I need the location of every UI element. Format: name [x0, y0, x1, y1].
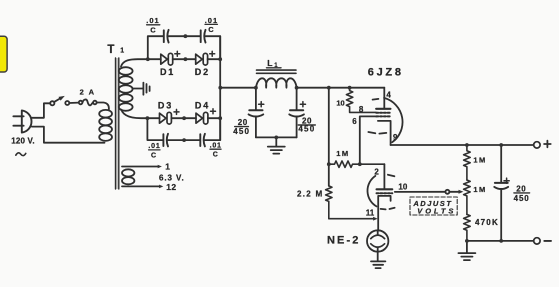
junction divider bottom [465, 239, 469, 243]
triode envelope [367, 176, 376, 207]
top cap line [148, 36, 220, 59]
bottom cap line [147, 118, 220, 140]
transformer T1 HV secondary winding [119, 67, 133, 75]
ground at filter caps [275, 137, 277, 146]
svg-text:C: C [150, 25, 156, 34]
triode cathode (pin 11) [378, 196, 390, 231]
AC plug P1 [22, 110, 32, 132]
svg-text:C: C [213, 152, 218, 159]
svg-text:D2: D2 [195, 67, 210, 77]
chassis ground at center tap [142, 83, 144, 95]
svg-text:VOLTS: VOLTS [417, 206, 456, 215]
L1 core bars [257, 70, 297, 73]
svg-text:8: 8 [359, 105, 364, 114]
junction D1 anode / secondary top [146, 57, 150, 61]
svg-text:C: C [151, 153, 156, 160]
svg-text:D3: D3 [158, 100, 173, 110]
wiper circle [445, 190, 449, 194]
svg-text:L: L [267, 58, 272, 68]
svg-text:1M: 1M [336, 149, 349, 158]
plus mark D1 [175, 51, 180, 56]
wire switch to fuse [69, 102, 79, 104]
choke L1 [256, 78, 297, 87]
junction B+ rail / 1M-2.2M rail [327, 86, 331, 90]
capacitor C1 .01 [163, 30, 165, 42]
pentode plate (pin 4) [383, 88, 385, 108]
svg-text:.01: .01 [148, 143, 160, 150]
wire fuse to primary [97, 103, 109, 110]
wire filament top lead to pin 1 [122, 166, 158, 168]
junction D3 anode / secondary bottom [146, 116, 150, 120]
transformer T1 primary winding [99, 110, 112, 118]
pentode control grid (pin 6) [376, 115, 390, 117]
junction 1M left / 2.2M top [327, 162, 331, 166]
svg-text:2.2 M: 2.2 M [297, 189, 324, 198]
diode D3 [160, 113, 167, 123]
capacitor C7 20/450 output [500, 145, 502, 182]
svg-text:.01: .01 [210, 142, 222, 149]
neon lamp NE-2 [367, 230, 388, 251]
junction 1M right / pin 6 / pin 2 [358, 162, 362, 166]
output bottom wire (to -) [467, 240, 534, 242]
triode plate (pin 2) [383, 164, 385, 188]
output top wire (pin 9 to +) [391, 144, 534, 146]
plus mark D4 [211, 109, 216, 114]
svg-text:1M: 1M [473, 156, 486, 165]
resistor 1M (top right) [464, 145, 471, 180]
svg-text:1M: 1M [473, 185, 486, 194]
capacitor C2 .01 [200, 30, 202, 42]
wire center tap [132, 88, 142, 90]
svg-text:450: 450 [298, 125, 315, 134]
ground at NE-2 [377, 252, 379, 261]
rectifier output rail vertical [219, 36, 221, 140]
wire secondary bottom lead [121, 110, 147, 119]
terminal - [534, 238, 540, 244]
svg-text:450: 450 [233, 127, 250, 136]
svg-text:20: 20 [238, 118, 248, 127]
yellow tab [0, 36, 7, 72]
svg-text:2 A: 2 A [80, 87, 96, 96]
AC tilde [16, 153, 26, 156]
transformer T1 filament winding [122, 169, 134, 176]
svg-text:10: 10 [336, 98, 344, 107]
plus mark C7 [504, 178, 509, 183]
wire filament bottom lead to pin 12 [122, 185, 159, 187]
diode D2 [196, 54, 203, 64]
junction D2 cathode [218, 57, 222, 61]
junction D1-D2 [184, 57, 188, 61]
fuse 2A [79, 101, 83, 105]
junction C3-C4 [182, 138, 186, 142]
capacitor C3 .01 [162, 134, 164, 146]
junction C7 bottom [499, 239, 503, 243]
junction D4 cathode [218, 116, 222, 120]
diode D4 [196, 113, 203, 123]
junction rectifier output node [218, 86, 222, 90]
svg-text:1: 1 [120, 48, 124, 55]
plug prong lower [13, 125, 23, 127]
ground at divider [466, 241, 468, 253]
terminal + [534, 142, 540, 148]
pentode envelope [384, 98, 402, 142]
resistor 2.2M [326, 186, 374, 219]
pentode screen grid [376, 112, 391, 114]
diode D1 [161, 54, 168, 64]
svg-text:1: 1 [165, 161, 170, 171]
svg-text:D1: D1 [160, 67, 175, 77]
svg-text:12: 12 [166, 182, 176, 192]
ADJUST VOLTS box [410, 197, 457, 215]
svg-text:6JZ8: 6JZ8 [368, 66, 404, 78]
plus mark C6 [300, 102, 305, 107]
top rectifier: diode line [148, 58, 161, 60]
pentode cathode (pin 9) [378, 121, 391, 145]
junction L1 right / C6 [295, 86, 299, 90]
bottom rectifier: diode line [147, 117, 159, 119]
B+ rail to tube [297, 87, 385, 89]
junction output rail / C7 top [499, 143, 503, 147]
svg-text:C: C [208, 25, 214, 34]
plus mark D2 [210, 51, 215, 56]
svg-text:11: 11 [366, 209, 375, 218]
capacitor C4 .01 [199, 134, 201, 146]
wire cap bottoms [256, 136, 297, 138]
junction B+ rail / 10 ohm [348, 86, 352, 90]
svg-text:470K: 470K [475, 218, 499, 227]
left rail junction down [328, 88, 330, 186]
svg-text:6: 6 [352, 117, 357, 126]
wire plug bottom to transformer [32, 127, 105, 143]
junction L1 left / C5 [254, 86, 258, 90]
svg-text:120 V.: 120 V. [11, 136, 35, 145]
resistor 1M pot [464, 180, 471, 214]
resistor 1M (horizontal) [329, 161, 385, 167]
transformer T1 core [115, 58, 119, 189]
wire rectifier to L1 [220, 87, 256, 89]
junction C1-C2 [184, 34, 188, 38]
wire secondary top lead [121, 59, 148, 66]
plus mark C5 [259, 102, 264, 107]
triode grid (pin 10) [377, 192, 393, 194]
svg-text:.01: .01 [146, 16, 159, 25]
capacitor C5 20/450 [255, 88, 257, 110]
svg-text:10: 10 [398, 182, 407, 191]
junction filter cap ground node [274, 136, 278, 140]
svg-text:450: 450 [514, 194, 530, 203]
plug prong upper [13, 115, 23, 117]
capacitor C6 20/450 [296, 88, 298, 110]
plus mark D3 [174, 109, 179, 114]
svg-text:20: 20 [516, 184, 526, 193]
pin 11 arrow [373, 217, 378, 221]
svg-text:NE-2: NE-2 [327, 235, 360, 247]
svg-text:T: T [107, 44, 114, 56]
junction output rail / divider top [465, 143, 469, 147]
wire plug top to switch [32, 103, 50, 118]
junction D3-D4 [182, 116, 186, 120]
switch S1 [50, 101, 54, 105]
resistor 470K [464, 214, 471, 241]
svg-text:.01: .01 [205, 16, 218, 25]
resistor 10 ohm [346, 88, 376, 113]
svg-text:D4: D4 [195, 100, 210, 110]
